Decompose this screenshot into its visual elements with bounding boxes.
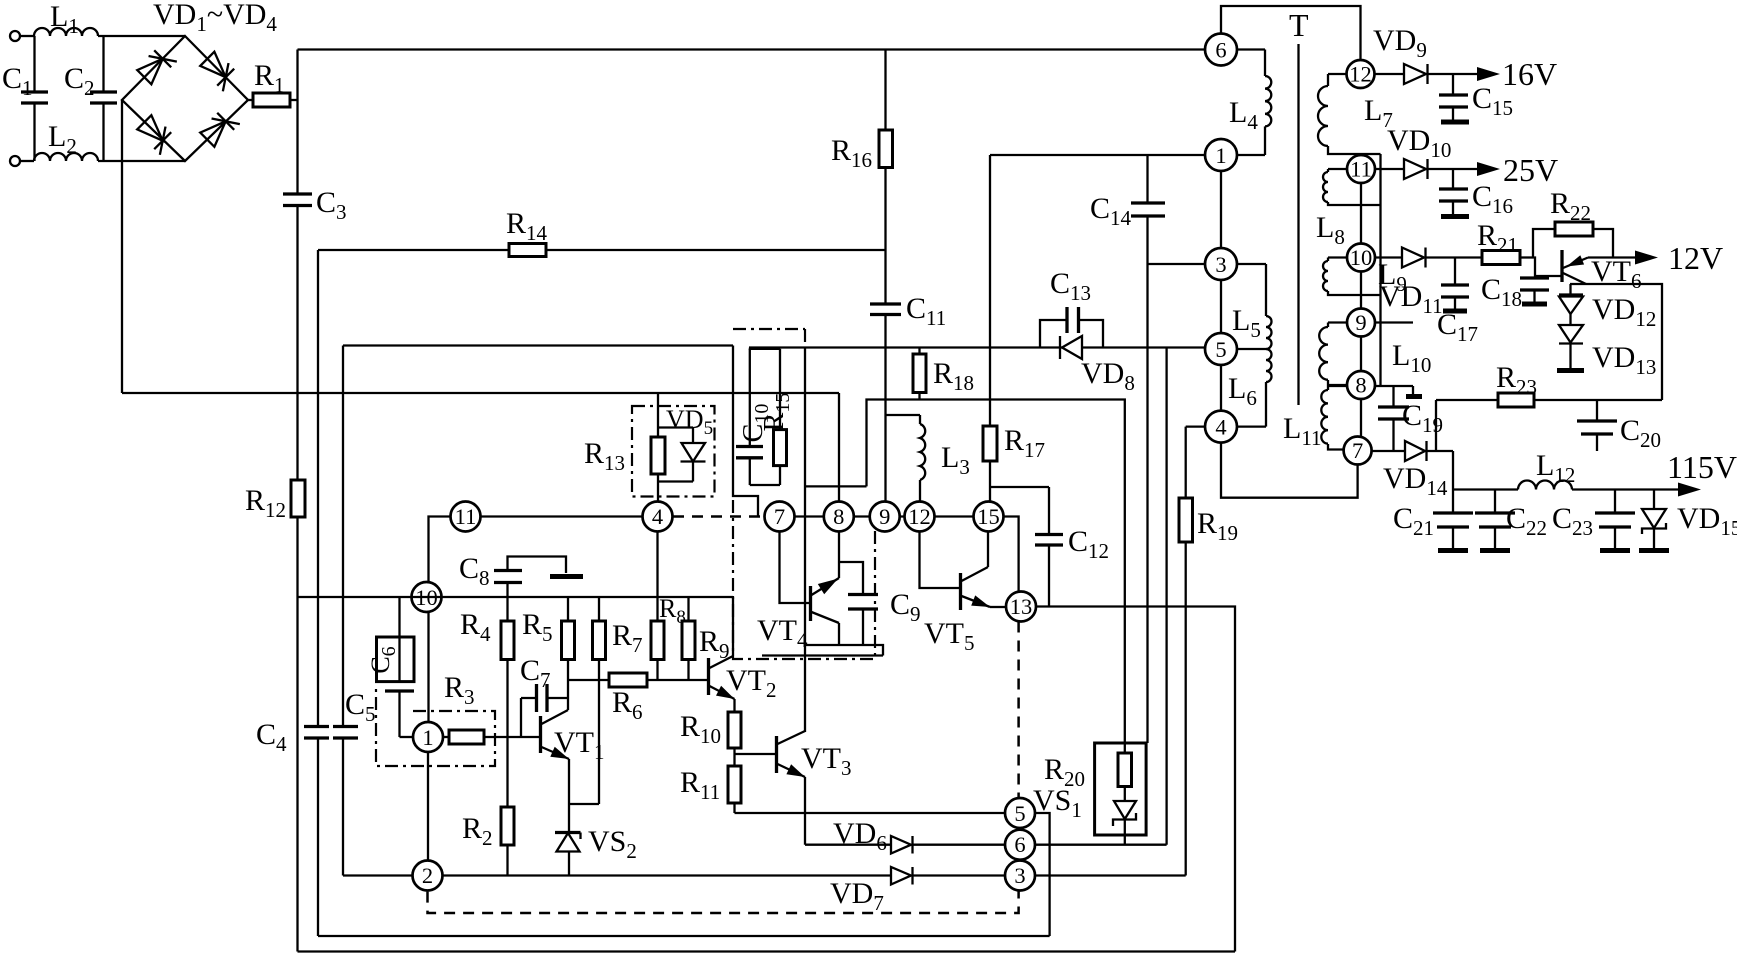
wire (VD14 out corner to 115V rail and R23 stub) xyxy=(1427,400,1454,490)
transistor VT6 xyxy=(1562,250,1642,293)
wire (rail x343 down to C5) xyxy=(342,346,344,727)
inductor L4 xyxy=(1229,50,1271,156)
wire (VT5 emitter to node13) xyxy=(990,606,1006,608)
wire (y347 bus left part from corner x343) xyxy=(343,344,733,346)
capacitor C6 with frame xyxy=(366,597,414,737)
wire (node13 to right corner down to bottom frame) xyxy=(1036,607,1235,952)
inductor L6 xyxy=(1228,349,1272,427)
capacitor C1 xyxy=(2,36,48,161)
wire (pin8 rail x839 from line A) xyxy=(838,393,840,502)
svg-text:6: 6 xyxy=(1014,832,1025,857)
dash-dot box around R13 VD5 xyxy=(632,406,715,497)
wire (node10 output 12V) xyxy=(1375,256,1402,258)
svg-text:5: 5 xyxy=(1014,801,1025,826)
wire (VT5 collector to pin15) xyxy=(987,532,989,568)
transistor VT5 xyxy=(924,567,990,655)
svg-text:12V: 12V xyxy=(1668,240,1723,276)
zener diode VD15 xyxy=(1639,490,1737,551)
diode VD13 xyxy=(1557,314,1656,379)
node 8 pin xyxy=(824,502,854,532)
svg-text:11: 11 xyxy=(455,504,477,529)
svg-text:T: T xyxy=(1289,7,1309,43)
wire (node9 stub) xyxy=(1375,321,1413,323)
dash-dot box around VT4 C9 C10 R15 xyxy=(733,329,875,659)
wire (line B y399.5 to R20 rail corner) xyxy=(867,400,1125,744)
wire (node5 to node4) xyxy=(1220,365,1222,411)
wire (secondary return rail x1380) xyxy=(1379,154,1381,386)
capacitor C9 xyxy=(848,588,921,645)
wire and arrow 16V xyxy=(1428,56,1558,92)
svg-text:12: 12 xyxy=(908,504,931,529)
wire (node1 left then down x990) xyxy=(990,154,1205,156)
capacitor C12 xyxy=(990,487,1109,607)
resistor R3 xyxy=(443,671,540,744)
capacitor C10 xyxy=(736,349,773,485)
diode VD8 xyxy=(1060,336,1135,395)
wire and arrow 25V xyxy=(1428,152,1559,188)
capacitor C20 xyxy=(1577,400,1661,452)
wire (dashed node13 down then left to node2) xyxy=(428,622,1019,914)
wire (W2 y655) xyxy=(762,654,883,656)
inductor L2 xyxy=(34,153,98,161)
node 9 sec xyxy=(1347,309,1375,337)
resistor R17 xyxy=(983,155,1045,502)
transistor VT3 xyxy=(735,731,852,780)
wire (top bus to node 6) xyxy=(298,48,1206,50)
node 13 xyxy=(1006,592,1036,622)
svg-text:7: 7 xyxy=(1352,438,1363,463)
inductor L8 xyxy=(1316,169,1381,249)
node 15 pin xyxy=(974,502,1004,532)
diode VD4 (lower-right edge) xyxy=(199,107,240,148)
wire (node4 bottom link to node7 bottom) xyxy=(1221,443,1358,498)
svg-text:25V: 25V xyxy=(1503,152,1558,188)
resistor R2 xyxy=(462,807,514,876)
capacitor C16 xyxy=(1439,169,1513,218)
inductor L3 xyxy=(886,415,970,502)
capacitor C14 xyxy=(1090,155,1165,743)
wire (VT2 collector up to node10 bus) xyxy=(732,597,734,656)
resistor R9 xyxy=(682,597,730,680)
resistor R13 xyxy=(584,393,693,502)
wire (W1 y645) xyxy=(805,645,883,656)
diode VD7 xyxy=(830,867,913,915)
svg-text:13: 13 xyxy=(1010,594,1033,619)
wire (y347 bus drop at x733 to pin row) xyxy=(733,346,758,517)
resistor R10 xyxy=(680,699,741,766)
zener diode VS1 xyxy=(1033,784,1136,845)
svg-text:12: 12 xyxy=(1349,62,1372,87)
svg-text:115V: 115V xyxy=(1667,449,1737,485)
inductor L5 xyxy=(1232,264,1272,349)
inductor L7 xyxy=(1318,74,1393,154)
inductor L11 xyxy=(1283,386,1346,450)
wire (node10 to node1 rail) xyxy=(427,612,429,722)
node 2 xyxy=(413,861,443,891)
wire (y936 line) xyxy=(318,935,1050,937)
wire (pin11 to pin4) xyxy=(481,515,643,517)
svg-text:10: 10 xyxy=(1350,245,1373,270)
wire (R1 node vertical) xyxy=(296,50,298,195)
diode VD9 xyxy=(1373,24,1428,84)
capacitor C18 xyxy=(1481,273,1549,311)
wire (pin row 7 to 15 and corner down to 13) xyxy=(764,517,1019,592)
zener diode VD5 xyxy=(666,405,713,482)
wire and arrow 12V xyxy=(1588,240,1723,276)
transistor VT1 xyxy=(541,710,605,764)
node 9 pin xyxy=(870,502,900,532)
wire (node3 to node5) xyxy=(1220,280,1222,333)
node 10 xyxy=(412,582,442,612)
wire (secondary node chain rail) xyxy=(1360,169,1362,450)
wire (node6 top loop over to secondary top) xyxy=(1221,6,1361,60)
resistor R12 xyxy=(245,480,305,952)
svg-text:7: 7 xyxy=(774,504,785,529)
capacitor C23 xyxy=(1552,490,1635,551)
node 1 xyxy=(413,722,443,752)
capacitor C7 xyxy=(520,654,568,737)
inductor L10 xyxy=(1319,323,1431,386)
wire xyxy=(20,160,34,162)
resistor R23 xyxy=(1436,361,1662,407)
wire (pin5 line y813) xyxy=(735,813,1050,936)
wire (y347 bus right part with VD8 to node 5) xyxy=(749,346,1062,348)
resistor R20 and zener VS1 box xyxy=(1044,743,1146,835)
capacitor C11 xyxy=(870,292,946,502)
resistor R19 xyxy=(1179,427,1238,876)
capacitor C22 xyxy=(1475,490,1547,551)
svg-text:15: 15 xyxy=(977,504,1000,529)
diode VD12 xyxy=(1559,284,1656,331)
wire xyxy=(98,35,185,37)
wire (node1 to node2 rail) xyxy=(427,752,429,860)
wire (rail x318 from R14 corner down to C4) xyxy=(317,250,319,727)
wire (VT3 emitter rail down to VD6 line) xyxy=(804,777,806,845)
wire (dashed pin line 4 to 7) xyxy=(673,515,764,518)
node 3 xyxy=(1205,248,1237,280)
wire (node7 output) xyxy=(1372,450,1405,452)
wire (pin11 corner to node 10) xyxy=(429,517,451,583)
inductor L12 xyxy=(1518,449,1575,490)
wire (node4 left to R19) xyxy=(1186,425,1205,427)
dash-dot box around node 1 / R3 xyxy=(376,684,495,766)
box around VD12 VD13 xyxy=(1570,284,1662,400)
svg-text:1: 1 xyxy=(1215,143,1226,168)
wire (y486 link) xyxy=(805,485,867,487)
inductor L1 xyxy=(34,28,98,36)
svg-text:4: 4 xyxy=(1215,415,1226,440)
wire (VT4 emitter up to pin8 and C9 hook) xyxy=(839,532,863,595)
resistor R4 xyxy=(460,597,514,807)
wire (bottom frame y951.5) xyxy=(298,950,1236,952)
wire (node1 to node3) xyxy=(1220,171,1222,248)
resistor R6 xyxy=(568,673,708,724)
wire (VD6 line y844.7) xyxy=(805,844,891,846)
node 5 pin xyxy=(1005,798,1035,828)
resistor R5 xyxy=(522,597,575,710)
capacitor C3 xyxy=(283,186,347,480)
wire (115V rail) xyxy=(1453,488,1518,490)
svg-text:3: 3 xyxy=(1014,863,1025,888)
wire (node11 output 25V) xyxy=(1375,168,1404,170)
transformer core T xyxy=(1289,7,1309,405)
node 7 sec xyxy=(1344,437,1372,465)
svg-text:1: 1 xyxy=(422,725,433,750)
node 3 pin xyxy=(1005,861,1035,891)
node 11 pin xyxy=(451,502,481,532)
resistor R1 xyxy=(248,59,298,107)
resistor R14 xyxy=(318,207,886,257)
wire (node12 output 16V) xyxy=(1375,73,1405,75)
wire (node8 right with ground tick) xyxy=(1375,386,1422,397)
node 5 xyxy=(1205,333,1237,365)
resistor R22 xyxy=(1533,187,1613,258)
svg-text:VD1~VD4: VD1~VD4 xyxy=(153,0,277,36)
node 10 sec xyxy=(1347,244,1375,272)
wire xyxy=(1426,256,1483,258)
wire (negative bus line A y393) xyxy=(122,392,839,394)
inductor L9 xyxy=(1323,258,1407,297)
wire (node10 bus y597) xyxy=(298,596,734,598)
resistor R8 xyxy=(651,532,686,681)
diode VD6 xyxy=(833,817,913,855)
wire (pin6 rail from y347 bus) xyxy=(1165,348,1167,845)
wire (base jog) xyxy=(1533,258,1561,277)
node 12 pin xyxy=(905,502,935,532)
wire (pin12 down to VT5 base) xyxy=(920,532,960,589)
diode VD1 (upper-left edge) xyxy=(136,45,177,86)
capacitor C13 xyxy=(1040,267,1103,348)
svg-text:8: 8 xyxy=(1355,373,1366,398)
wire (pin7 down to VT4 base) xyxy=(780,532,811,604)
input terminal top xyxy=(10,31,20,41)
svg-text:16V: 16V xyxy=(1502,56,1557,92)
bridge rectifier VD1~VD4 xyxy=(122,0,277,161)
node 6 pin xyxy=(1005,830,1035,860)
svg-text:8: 8 xyxy=(833,504,844,529)
wire (node2 line y875.5) xyxy=(343,874,891,876)
node 12 sec xyxy=(1347,60,1375,88)
input terminal bottom xyxy=(10,156,20,166)
resistor R11 xyxy=(680,766,741,813)
resistor R18 xyxy=(913,348,974,400)
diode VD3 (lower-left edge) xyxy=(136,114,177,155)
svg-text:9: 9 xyxy=(879,504,890,529)
svg-text:4: 4 xyxy=(652,504,663,529)
node 4 pin xyxy=(643,502,673,532)
wire (x805 rail y347 to VT3 collector) xyxy=(804,348,806,733)
node 4 xyxy=(1205,411,1237,443)
transistor VT4 xyxy=(757,578,839,652)
node 11 sec xyxy=(1347,155,1375,183)
resistor R7 xyxy=(593,597,643,804)
svg-text:9: 9 xyxy=(1355,310,1366,335)
svg-text:5: 5 xyxy=(1215,337,1226,362)
capacitor C4 xyxy=(256,718,329,936)
wire (C14 to node 3) xyxy=(1148,263,1206,265)
svg-text:3: 3 xyxy=(1215,252,1226,277)
diode VD2 (upper-right edge) xyxy=(199,50,240,91)
capacitor C21 xyxy=(1393,490,1473,551)
svg-text:2: 2 xyxy=(422,863,433,888)
resistor R15 xyxy=(749,349,794,485)
resistor R21 xyxy=(1477,219,1533,265)
wire xyxy=(20,35,34,37)
capacitor C2 xyxy=(64,36,117,161)
wire and arrow 115V xyxy=(1572,449,1737,497)
wire (VT4 collector down to W1) xyxy=(838,623,840,645)
capacitor C5 xyxy=(333,688,376,876)
capacitor C17 xyxy=(1437,258,1478,347)
node 6 xyxy=(1205,34,1237,66)
resistor R16 xyxy=(831,50,893,305)
diode VD10 xyxy=(1387,124,1451,179)
capacitor C8 xyxy=(459,552,583,597)
node 8 sec xyxy=(1347,371,1375,399)
node 7 pin xyxy=(765,502,795,532)
wire xyxy=(98,160,185,162)
svg-text:11: 11 xyxy=(1350,157,1372,182)
diode VD11 xyxy=(1379,248,1443,319)
zener diode VS2 xyxy=(555,759,637,876)
wire (bridge negative rail down from left corner) xyxy=(121,100,123,393)
diode VD14 xyxy=(1383,441,1448,500)
node 1 xyxy=(1205,139,1237,171)
capacitor C19 xyxy=(1378,386,1443,451)
capacitor C15 xyxy=(1439,74,1513,122)
transistor VT2 xyxy=(709,656,777,702)
svg-text:6: 6 xyxy=(1215,38,1226,63)
